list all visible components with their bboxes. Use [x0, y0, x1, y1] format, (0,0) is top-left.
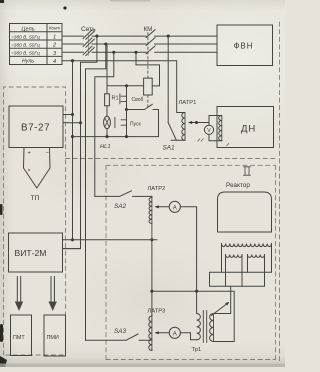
resistor R1: [105, 94, 110, 106]
wire phase row2: [62, 43, 217, 45]
wire КМ coil right hook: [136, 52, 160, 86]
svg-text:ЛАТР2: ЛАТР2: [148, 186, 166, 192]
hatch marks: [198, 139, 229, 147]
reactor core outline: [218, 192, 272, 232]
node phase A to В7-27: [79, 121, 82, 124]
switch Сеть pole 2: [83, 38, 94, 48]
svg-text:A: A: [173, 205, 177, 211]
svg-text:ТП: ТП: [31, 195, 40, 202]
svg-text:~380 В, 50Гц: ~380 В, 50Гц: [11, 51, 40, 57]
node on row3 КМ coil feed: [134, 51, 137, 54]
reactor w2 leads: [248, 255, 265, 287]
thermocouple ТП body: [24, 148, 51, 189]
svg-text:ПМТ: ПМТ: [13, 335, 25, 341]
node on row1 before switch drop: [95, 35, 98, 38]
svg-text:A: A: [173, 331, 177, 337]
box ФВН: [217, 25, 273, 66]
stain (red dot): [28, 169, 30, 171]
contactor КМ pole 3: [146, 46, 155, 54]
tap arrow ЛАТР3: [156, 332, 170, 334]
node aux branch: [125, 108, 128, 111]
wire lamp to bus: [106, 129, 108, 137]
node ЛАТР2 bottom on bus: [150, 238, 153, 241]
tap arrow ЛАТР2: [156, 206, 170, 208]
autotransformer ЛАТР2 coil: [149, 198, 152, 224]
svg-text:R1: R1: [112, 96, 119, 102]
bus to Тр1: [152, 291, 234, 341]
ammeter A3: [169, 327, 180, 338]
label II: [244, 167, 251, 175]
node A2 drop on bus: [195, 290, 198, 293]
wire neutral row4: [62, 60, 177, 62]
wire В7-27 stub 2: [63, 122, 81, 124]
wire phase row3: [62, 51, 217, 53]
wire neutral drop: [72, 61, 74, 240]
svg-text:ЛАТР3: ЛАТР3: [148, 309, 166, 315]
svg-text:КМ: КМ: [144, 26, 153, 33]
box В7-27: [9, 106, 63, 148]
autotransformer ЛАТР3 coil: [149, 316, 152, 351]
contactor КМ pole 1: [146, 30, 155, 38]
lamp HL1: [104, 116, 111, 128]
svg-text:~380 В, 50Гц: ~380 В, 50Гц: [11, 34, 40, 40]
svg-text:+: +: [28, 151, 31, 157]
reactor w1 leads: [226, 255, 243, 287]
node tap: [195, 121, 198, 124]
wire R1 to lamp: [106, 106, 108, 116]
switch Сеть pole 1: [83, 30, 94, 40]
node neutral to bus: [71, 238, 74, 241]
node on neutral: [71, 59, 74, 62]
svg-text:SA1: SA1: [163, 145, 176, 152]
coil КМ: [144, 78, 153, 95]
svg-text:SA2: SA2: [114, 203, 127, 210]
node neutral to lamp bus: [71, 135, 74, 138]
ammeter A2: [169, 201, 180, 212]
box ПМИ: [44, 315, 66, 356]
dashed box region II (lower right): [106, 165, 276, 359]
reactor main winding leads: [222, 244, 272, 273]
wire phase A drop with jog: [63, 36, 97, 249]
wire phase C drop with jog: [95, 52, 114, 196]
svg-text:Своб: Своб: [132, 97, 144, 103]
node lamp bottom: [105, 135, 108, 138]
svg-text:ПМИ: ПМИ: [47, 335, 59, 341]
svg-text:Нуль: Нуль: [22, 59, 34, 65]
node on row3: [112, 51, 115, 54]
bus ВИТ-2М to ЛАТР2: [63, 239, 158, 241]
node on row2: [104, 42, 107, 45]
button Своб contact: [120, 86, 127, 110]
node neutral to В7-27: [71, 113, 74, 116]
switch Сеть pole 3: [83, 46, 94, 56]
dashed right page edge: [279, 22, 281, 361]
tap arrow ЛАТР1: [189, 122, 197, 124]
transformer Тр1 core: [203, 311, 206, 343]
svg-text:Тр1: Тр1: [192, 347, 202, 353]
autotransformer ЛАТР1 feed: [177, 61, 185, 113]
wire phase B drop with jog: [86, 44, 106, 340]
wire phase row1: [62, 35, 217, 37]
dashed box region I (left, vacuum unit): [4, 87, 66, 355]
contact КМ auxiliary: [127, 104, 159, 136]
reactor winding w1: [226, 255, 242, 258]
wire SA1 to ЛАТР1 bottom: [171, 139, 185, 141]
wire A2 to bus: [180, 207, 196, 291]
svg-text:ФВН: ФВН: [234, 42, 254, 51]
svg-text:HL1: HL1: [100, 144, 111, 150]
switch SA2: [95, 191, 152, 197]
svg-text:Реактор: Реактор: [226, 182, 250, 189]
box ДН: [217, 107, 274, 148]
reactor main winding: [222, 244, 272, 247]
svg-text:ДН: ДН: [241, 124, 256, 135]
node Пуск bottom: [125, 135, 128, 138]
adjust arrow Тр1: [212, 303, 229, 316]
svg-text:V: V: [207, 128, 211, 134]
switch SA1: [168, 123, 176, 141]
wire A3 to Тр1 primary: [180, 333, 196, 340]
node ЛАТР3 top junction: [150, 290, 153, 293]
wire reactor link H2: [210, 285, 265, 287]
wire Тр1 secondary top lead: [214, 286, 231, 313]
wire ЛАТР2 to ЛАТР3: [151, 240, 153, 316]
box ПМТ: [11, 315, 32, 356]
svg-text:4: 4: [53, 59, 56, 65]
svg-text:−: −: [46, 151, 49, 157]
arrow to ПМТ: [15, 277, 23, 312]
dashed link coil to aux: [147, 95, 149, 108]
node on row1 after КМ: [167, 35, 170, 38]
svg-text:Цепь: Цепь: [21, 26, 34, 32]
contactor КМ mechanical link (dashed): [147, 33, 149, 79]
voltmeter V: [204, 125, 213, 134]
wire В7-27 stub 1: [63, 114, 73, 116]
svg-text:SA3: SA3: [114, 328, 127, 335]
svg-text:~380 В, 50Гц: ~380 В, 50Гц: [11, 43, 40, 49]
svg-text:Конт: Конт: [49, 26, 60, 31]
wire link H1-H2: [209, 272, 211, 286]
arrow to ПМИ: [49, 277, 57, 312]
reactor winding w2: [248, 255, 265, 258]
svg-text:ЛАТР1: ЛАТР1: [179, 100, 197, 106]
button Пуск contact: [115, 110, 127, 137]
wire tap to ДН: [197, 116, 222, 126]
svg-text:В7-27: В7-27: [21, 123, 50, 134]
wire R1 branch feed: [107, 45, 144, 94]
wire ВИТ-2М stub 2: [63, 248, 81, 250]
scan artifact marks: [0, 0, 67, 367]
node Своб branch: [125, 84, 128, 87]
table text: [11, 26, 60, 65]
autotransformer ЛАТР1 coil: [182, 113, 185, 141]
connector table X1: [10, 24, 63, 65]
wire V bottom to ДН: [209, 134, 222, 140]
transformer Тр1 secondary: [210, 314, 214, 342]
box ВИТ-2М: [9, 233, 63, 272]
switch SA1 feed wire: [167, 36, 169, 122]
svg-text:Пуск: Пуск: [130, 121, 142, 127]
svg-text:1: 1: [53, 35, 56, 41]
wire reactor link H1: [210, 271, 272, 273]
switch SA3: [86, 334, 152, 340]
coil ДН primary: [219, 116, 222, 141]
dashed divider middle region bottom: [66, 158, 278, 160]
svg-text:ВИТ-2М: ВИТ-2М: [15, 248, 47, 258]
contactor КМ pole 2: [146, 38, 155, 46]
wire control bottom bus: [73, 136, 159, 138]
transformer Тр1 primary: [197, 314, 201, 340]
switch Сеть linkage: [87, 34, 89, 56]
